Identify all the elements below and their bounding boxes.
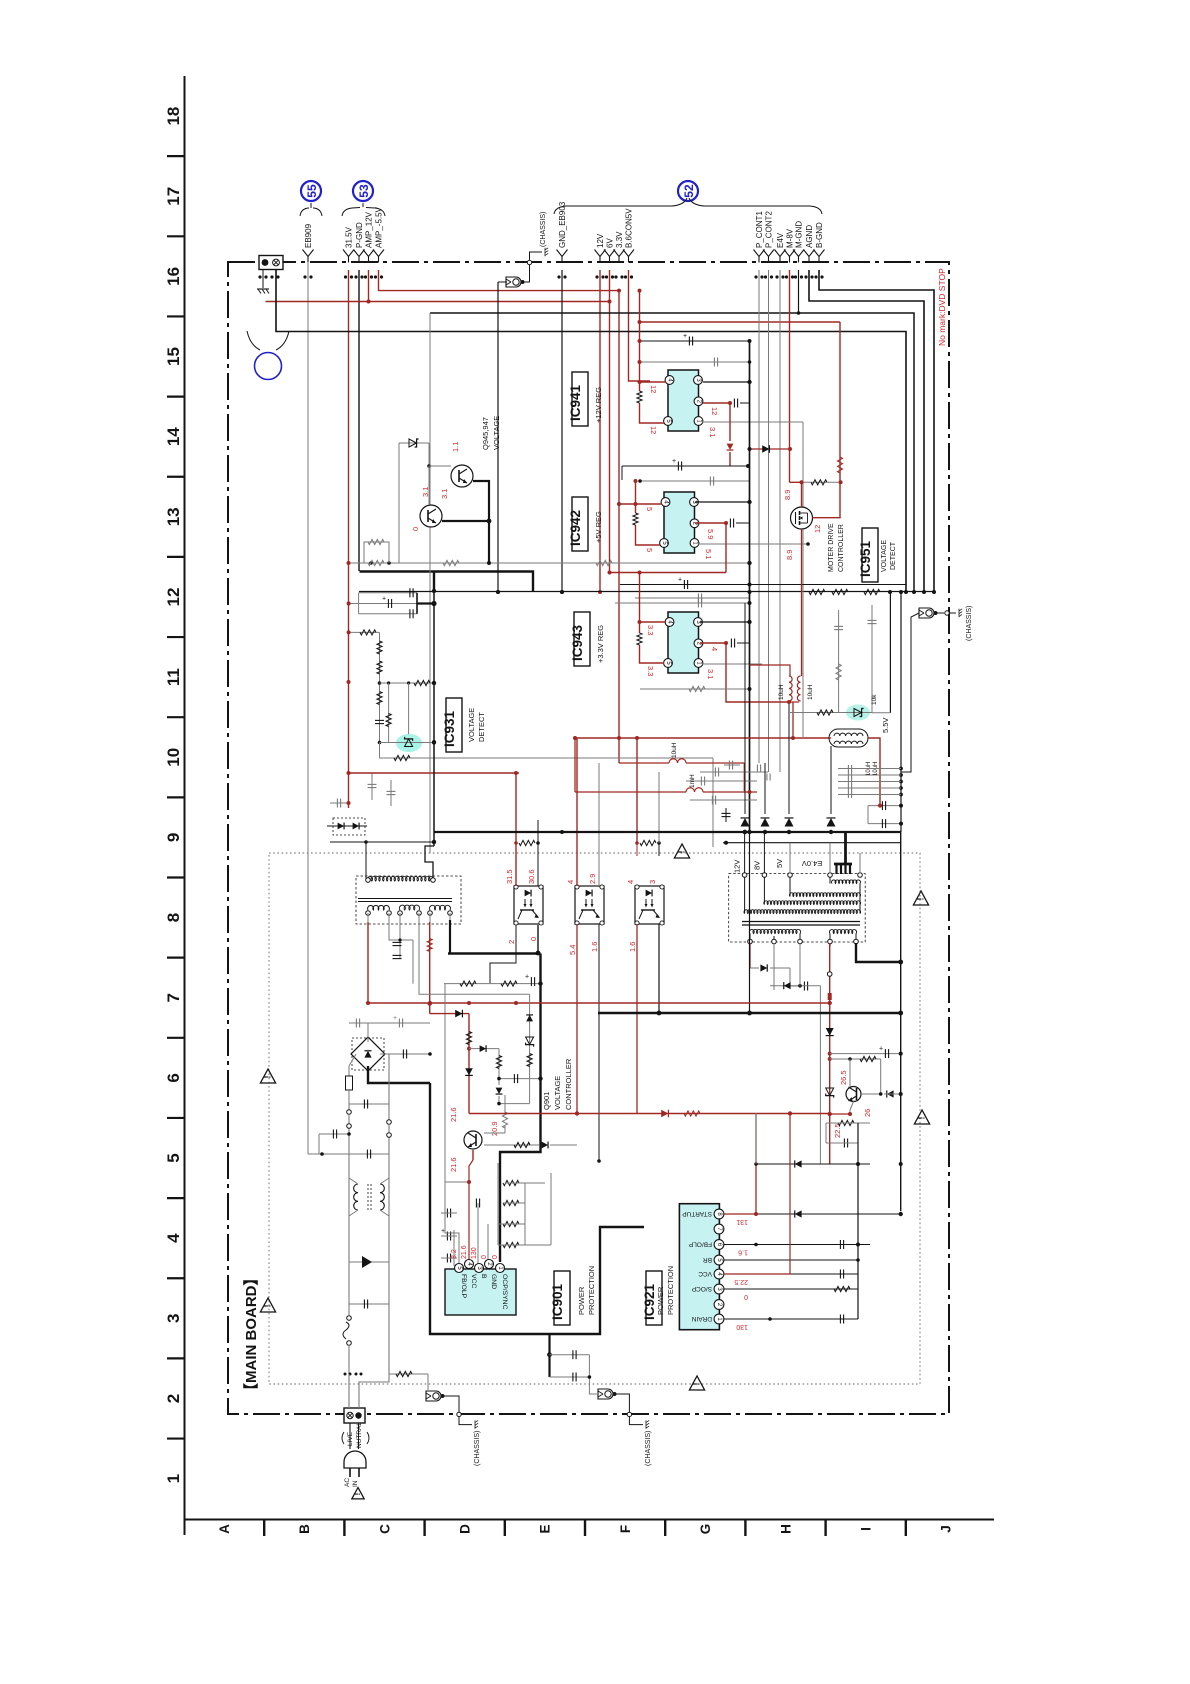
regulator IC942 xyxy=(664,492,695,553)
IC942 pin2 red wire xyxy=(695,523,726,573)
T902 core xyxy=(742,921,860,923)
cap bracket y806 xyxy=(868,805,901,807)
svg-text:52: 52 xyxy=(682,184,696,198)
wire AGND loop xyxy=(809,270,924,592)
bus elbow to transformer xyxy=(425,846,434,879)
wire P_CONT1 xyxy=(758,270,760,763)
red y518 link xyxy=(813,517,841,519)
circled 52 xyxy=(678,181,698,201)
thick bus y954 xyxy=(448,952,541,954)
optocoupler PH903 xyxy=(635,886,664,924)
T902 winding row2 xyxy=(789,893,860,897)
svg-text:+5V REG: +5V REG xyxy=(594,511,603,543)
svg-text:10: 10 xyxy=(164,748,183,767)
optocoupler PH902 xyxy=(575,886,604,924)
filter row y718 xyxy=(790,712,872,714)
svg-text:5.1: 5.1 xyxy=(704,549,713,559)
red bus y738 xyxy=(575,737,831,739)
ruler left numbers 18-1 xyxy=(164,107,183,1484)
red riser stub xyxy=(639,322,641,341)
svg-text:130: 130 xyxy=(471,1247,478,1259)
red bus y1003 xyxy=(368,1002,830,1004)
PH901 bottom wires xyxy=(490,925,516,983)
T902 winding verticals xyxy=(744,877,746,914)
divider vertical x409 xyxy=(408,683,410,735)
red bus y301 xyxy=(266,301,610,303)
svg-text:VOLTAGE: VOLTAGE xyxy=(881,540,888,572)
T902 bottom stubs xyxy=(749,943,751,946)
svg-text:21.6: 21.6 xyxy=(449,1157,458,1172)
divider net y683 xyxy=(380,682,435,684)
svg-text:4: 4 xyxy=(566,880,575,884)
cap bank C931 xyxy=(359,592,417,594)
regulator IC943 xyxy=(668,612,699,673)
cap across y1304 xyxy=(349,1303,389,1305)
connector B-GND entry xyxy=(814,250,825,257)
cap row above IC942 xyxy=(622,465,748,467)
svg-text:!: ! xyxy=(676,850,686,853)
PH903 bottom wires xyxy=(636,924,638,1113)
PH902 feeds xyxy=(576,738,578,886)
gray bus y563 xyxy=(349,562,750,564)
svg-text:12: 12 xyxy=(710,407,719,415)
svg-text:13: 13 xyxy=(164,507,183,526)
Q947 base wire xyxy=(429,465,451,467)
IC943 input resistor xyxy=(637,633,642,645)
cap row above bridge xyxy=(349,1022,430,1024)
svg-text:10k: 10k xyxy=(871,694,878,705)
svg-text:3.2: 3.2 xyxy=(451,1249,458,1259)
IC942 red input bracket xyxy=(635,481,637,513)
svg-text:22.5: 22.5 xyxy=(833,1123,842,1138)
svg-text:12: 12 xyxy=(649,385,658,393)
IC943 label box xyxy=(574,612,590,666)
svg-text:8.9: 8.9 xyxy=(783,490,792,500)
ruler left tick marks xyxy=(167,156,184,1438)
gray cell x848 xyxy=(838,610,840,713)
main bus x434 xyxy=(433,572,435,846)
gray drop x820 xyxy=(819,986,821,1164)
svg-text:BR: BR xyxy=(703,1256,712,1263)
svg-text:VOLTAGE: VOLTAGE xyxy=(492,416,501,450)
bridge cap right xyxy=(380,1053,430,1055)
chassis connector bottom left xyxy=(426,1391,441,1401)
wire to T901 pin1 xyxy=(365,842,367,879)
svg-text:4: 4 xyxy=(164,1233,183,1243)
right bus x858 xyxy=(857,1123,859,1319)
svg-text:55: 55 xyxy=(305,184,319,198)
wire B-GND loop xyxy=(819,270,934,592)
connector P-GND entry xyxy=(354,250,365,257)
divider y758 xyxy=(380,757,714,759)
wire EB909 vertical xyxy=(307,263,309,1154)
PH901 feeds xyxy=(515,773,517,886)
wire E4V xyxy=(779,270,781,772)
svg-text:1.1: 1.1 xyxy=(451,442,460,452)
divider vertical x389 xyxy=(388,683,390,743)
IC921 drain wire xyxy=(724,1318,858,1320)
svg-text:M-GND: M-GND xyxy=(795,221,804,248)
svg-text:GND_EB903: GND_EB903 xyxy=(558,201,567,248)
caps at IC901 pins xyxy=(446,1209,448,1218)
connector P_CONT2 entry xyxy=(763,250,774,257)
net y842 xyxy=(330,841,434,843)
svg-text:20.9: 20.9 xyxy=(490,1121,499,1136)
svg-text:!: ! xyxy=(916,1116,926,1119)
connector E4V entry xyxy=(775,250,786,257)
svg-text:!: ! xyxy=(262,1075,272,1078)
resistor y563 xyxy=(368,560,384,565)
rail left x349 xyxy=(348,1104,350,1315)
junction dots y1374 xyxy=(344,1373,347,1376)
svg-text:17: 17 xyxy=(164,187,183,206)
connector M-8V entry xyxy=(784,250,795,257)
svg-text:AGND: AGND xyxy=(805,225,814,248)
svg-text:6V: 6V xyxy=(606,238,615,248)
svg-text:12: 12 xyxy=(164,588,183,607)
IC921 startup diode xyxy=(756,1213,901,1215)
ruler bottom letters A-J xyxy=(217,1524,954,1535)
diode net y986 xyxy=(770,985,820,987)
gray cell x872 xyxy=(871,605,873,713)
svg-text:26: 26 xyxy=(863,1109,872,1117)
IC921 body xyxy=(679,1204,719,1330)
svg-text:3: 3 xyxy=(648,880,657,884)
racetrack inductor L951 xyxy=(829,729,868,747)
red bus y1113 xyxy=(469,1113,830,1115)
svg-text:5.4: 5.4 xyxy=(568,945,577,955)
connector pins primary xyxy=(347,1110,352,1115)
connector B.6CON5V entry xyxy=(623,250,634,257)
svg-text:3.1: 3.1 xyxy=(440,489,449,499)
wire P-GND lower run xyxy=(360,572,534,593)
MOSFET Q951 xyxy=(791,507,813,529)
svg-text:(CHASSIS): (CHASSIS) xyxy=(474,1431,481,1466)
connector AMP_-5.5V entry xyxy=(373,250,384,257)
IC942 label box xyxy=(572,497,588,551)
drop x750 low xyxy=(749,832,751,1013)
svg-text:D: D xyxy=(458,1524,473,1534)
transformer T901 dashed box xyxy=(356,876,461,924)
terminal box TB902 xyxy=(344,1408,365,1423)
ruler bottom horizontal line xyxy=(184,1519,994,1521)
svg-text:10uH: 10uH xyxy=(778,684,785,700)
svg-text:+: + xyxy=(672,458,676,465)
diode pair D911 xyxy=(333,818,365,835)
svg-text:22.5: 22.5 xyxy=(734,1278,748,1285)
transistor Q945 xyxy=(420,505,442,527)
svg-text:131: 131 xyxy=(736,1218,748,1225)
IC942 pin3 wire xyxy=(695,501,750,503)
warning triangle AC xyxy=(352,1488,364,1499)
red junction y773 xyxy=(349,772,520,774)
svg-text:G: G xyxy=(698,1524,713,1535)
svg-text:(CHASSIS): (CHASSIS) xyxy=(540,212,547,247)
svg-text:B: B xyxy=(297,1524,312,1534)
mid col x499 xyxy=(469,1048,499,1050)
cap row y603 xyxy=(615,602,750,604)
svg-text:+: + xyxy=(683,333,687,340)
svg-text:3.3: 3.3 xyxy=(646,666,655,676)
T902 winding row3 xyxy=(764,901,861,905)
cap C x340 xyxy=(330,802,349,804)
svg-text:F: F xyxy=(618,1525,633,1533)
Q951 gate feed xyxy=(790,482,802,507)
IC921 socp wire xyxy=(724,1288,858,1290)
svg-text:B-GND: B-GND xyxy=(815,222,824,248)
svg-text:21.6: 21.6 xyxy=(449,1107,458,1122)
svg-text:H: H xyxy=(778,1524,793,1534)
svg-text:12: 12 xyxy=(813,525,822,533)
svg-text:MOTER DRIVE: MOTER DRIVE xyxy=(828,523,835,572)
coupled inductor L943 xyxy=(789,676,792,701)
gray bus y313 xyxy=(430,313,914,592)
caps near x372 xyxy=(368,783,377,785)
svg-text:!: ! xyxy=(262,1304,272,1307)
svg-text:I: I xyxy=(859,1527,874,1531)
terminal box TB901 xyxy=(259,256,283,270)
svg-text:VCC: VCC xyxy=(698,1270,712,1277)
T902 bottom winding right xyxy=(829,930,856,934)
svg-text:+: + xyxy=(441,1228,445,1235)
thick bus y1013 xyxy=(598,1012,901,1014)
svg-text:15: 15 xyxy=(164,347,183,366)
bridge thick output xyxy=(368,1066,430,1083)
connector 6V entry xyxy=(604,250,615,257)
IC941 input resistor xyxy=(637,391,642,403)
svg-text:2: 2 xyxy=(507,940,516,944)
svg-text:5: 5 xyxy=(164,1153,183,1162)
resistor ladder x378 xyxy=(349,631,380,633)
diode row xyxy=(741,818,750,827)
Q901 red emitter xyxy=(472,1150,474,1160)
svg-text:21.6: 21.6 xyxy=(461,1245,468,1259)
cap rows mid right xyxy=(700,771,768,773)
thick comb E4 xyxy=(844,832,847,864)
IC942 input resistor xyxy=(633,513,638,525)
svg-text:0: 0 xyxy=(492,1255,499,1259)
wire AMP_12V vertical xyxy=(368,270,370,302)
svg-text:+: + xyxy=(393,1015,397,1022)
T902 winding row1 xyxy=(832,880,861,884)
connector 12V entry xyxy=(595,250,606,257)
svg-text:+3.3V REG: +3.3V REG xyxy=(596,625,605,663)
connector 3.3V entry xyxy=(614,250,625,257)
thick drop x540 xyxy=(500,954,541,1263)
T902 top pins xyxy=(742,873,747,878)
svg-text:30.6: 30.6 xyxy=(527,869,536,884)
svg-text:12V: 12V xyxy=(733,860,742,873)
Q971 wires xyxy=(849,1059,851,1087)
svg-text:5: 5 xyxy=(645,507,654,511)
Q951 red source xyxy=(801,529,803,676)
svg-text:8: 8 xyxy=(164,913,183,922)
svg-text:POWER: POWER xyxy=(577,1286,586,1315)
warning triangle left2 xyxy=(260,1298,275,1312)
diode red y449 xyxy=(750,448,791,450)
IC901 pins xyxy=(455,1264,464,1273)
wire 12V vertical xyxy=(599,270,601,592)
cap across y1104 xyxy=(349,1103,389,1105)
svg-text:3.3V: 3.3V xyxy=(615,231,624,248)
svg-text:!: ! xyxy=(354,1493,362,1495)
red chain x830 xyxy=(829,943,831,1114)
wire GND_EB903 vertical xyxy=(561,270,563,592)
resistor to chassis xyxy=(389,1373,428,1375)
connector 31.5V entry xyxy=(343,250,354,257)
red drop T901 right xyxy=(429,922,431,1014)
thick T902 ground xyxy=(856,943,901,962)
cap row2 above IC942 xyxy=(640,480,750,482)
wire B.6CON5V vertical xyxy=(629,270,651,381)
circled 55 xyxy=(301,181,321,201)
svg-text:4: 4 xyxy=(626,880,635,884)
svg-text:IC901: IC901 xyxy=(550,1283,565,1320)
T902 bottom winding left xyxy=(749,929,800,933)
svg-text:1.6: 1.6 xyxy=(590,942,599,952)
svg-text:3.1: 3.1 xyxy=(706,669,715,679)
IC941 label box xyxy=(572,372,588,426)
svg-text:DRAIN: DRAIN xyxy=(691,1315,712,1322)
svg-text:0: 0 xyxy=(411,527,420,531)
gray drop x803 xyxy=(802,422,804,737)
diode row y1164 xyxy=(756,1163,870,1165)
svg-text:4: 4 xyxy=(710,647,719,651)
connector AGND entry xyxy=(804,250,815,257)
gray frame x445 xyxy=(444,984,446,1183)
svg-text:10uH: 10uH xyxy=(807,684,814,700)
connector GND_EB903 entry xyxy=(557,250,568,257)
gray feeds IC901 xyxy=(412,940,414,984)
connector M-GND entry xyxy=(793,250,804,257)
svg-text:FB/OLP: FB/OLP xyxy=(689,1241,712,1248)
svg-text:130: 130 xyxy=(736,1323,748,1330)
diode chain x469 xyxy=(430,1013,469,1015)
circled 53 xyxy=(353,181,373,201)
transistor Q901 xyxy=(464,1131,482,1149)
red bus y322 xyxy=(640,321,841,323)
AC plug xyxy=(349,1423,351,1449)
svg-text:12V: 12V xyxy=(596,233,605,248)
svg-text:GND: GND xyxy=(490,1274,497,1289)
IC901 body xyxy=(445,1269,516,1315)
svg-text:A: A xyxy=(217,1524,232,1534)
gray riser x430 xyxy=(429,313,431,853)
hline y842 xyxy=(723,842,901,844)
svg-text:0: 0 xyxy=(744,1293,748,1300)
svg-text:1.6: 1.6 xyxy=(628,942,637,952)
resistor on x840 xyxy=(837,457,842,473)
bridge top wire xyxy=(367,1023,369,1042)
svg-text:2.9: 2.9 xyxy=(588,874,597,884)
cap below T902 xyxy=(803,982,805,991)
PH903 feeds xyxy=(636,738,638,843)
svg-text:3: 3 xyxy=(164,1314,183,1323)
IC931 label box xyxy=(446,698,462,752)
svg-text:P-GND: P-GND xyxy=(355,222,364,248)
IC943 pin2 red wire xyxy=(700,643,787,702)
svg-text:No mark:DVD STOP: No mark:DVD STOP xyxy=(937,268,947,346)
cap rows right xyxy=(838,768,901,770)
svg-text:9: 9 xyxy=(164,833,183,842)
svg-text:6: 6 xyxy=(164,1073,183,1082)
red drop T901 left xyxy=(367,922,369,1003)
right col x530 xyxy=(529,994,531,1103)
wire 31.5V vertical xyxy=(348,270,350,808)
svg-text:P_CONT1: P_CONT1 xyxy=(755,211,764,248)
fuse F901 xyxy=(348,1066,350,1076)
IC921 label box xyxy=(646,1271,662,1325)
svg-text:EB909: EB909 xyxy=(304,223,313,248)
warning triangle dotted top xyxy=(674,844,689,858)
warning triangle dotted bottom xyxy=(689,1376,704,1390)
chassis bottom mid xyxy=(598,1389,613,1399)
zener D945 xyxy=(399,442,429,444)
T901 secondary coils xyxy=(368,906,390,910)
gray net Q945 xyxy=(398,443,400,563)
svg-text:B.6CON5V: B.6CON5V xyxy=(625,208,634,248)
svg-text:26.5: 26.5 xyxy=(839,1070,848,1085)
svg-text:+: + xyxy=(382,596,386,603)
black drop x901 xyxy=(900,592,902,832)
svg-text:1.6: 1.6 xyxy=(738,1249,748,1256)
wire P-GND vertical xyxy=(358,270,360,571)
svg-text:IC921: IC921 xyxy=(642,1283,657,1320)
resistor grid xyxy=(497,1163,499,1245)
svg-text:Q945,947: Q945,947 xyxy=(481,417,490,450)
thick loop IC901 xyxy=(430,1083,644,1334)
zener D931 xyxy=(380,742,435,744)
Q947 collector xyxy=(473,481,489,563)
T901 core xyxy=(358,898,452,900)
warning triangle right xyxy=(913,891,928,905)
warning triangle left1 xyxy=(260,1069,275,1083)
bottom bus y832 xyxy=(434,831,901,833)
wire P_CONT2 xyxy=(768,270,770,772)
svg-text:31.5V: 31.5V xyxy=(345,226,354,248)
PH902 bottom wires xyxy=(576,924,578,1114)
transistor Q947 xyxy=(451,465,473,487)
isolation dotted border xyxy=(269,853,920,1384)
chassis ground at TB901 xyxy=(262,270,264,288)
IC941 red input bracket xyxy=(639,291,641,391)
svg-text:3.1: 3.1 xyxy=(708,427,717,437)
red into racetrack xyxy=(829,737,831,739)
bridge rectifier D901 xyxy=(352,1038,384,1070)
IC943 pin3 wire xyxy=(700,621,750,623)
gray drops T901 xyxy=(399,922,401,958)
svg-text:+: + xyxy=(678,577,682,584)
svg-text:+12V REG: +12V REG xyxy=(594,387,603,423)
PH901 top resistor xyxy=(515,843,517,856)
svg-text:(CHASSIS): (CHASSIS) xyxy=(966,606,973,641)
IC921 br wire xyxy=(724,1259,858,1261)
P_CONT cap ends xyxy=(756,765,758,772)
net y1059 xyxy=(830,1058,881,1060)
svg-text:8.9: 8.9 xyxy=(785,550,794,560)
Q945 collector xyxy=(442,520,489,522)
svg-text:J: J xyxy=(939,1525,954,1533)
svg-text:OCP/SYNC: OCP/SYNC xyxy=(501,1274,508,1310)
chassis right wire xyxy=(901,613,919,772)
resistor loop y542 xyxy=(364,542,389,563)
red out of racetrack xyxy=(868,738,880,806)
blue connector circle xyxy=(255,353,282,380)
choke L902 xyxy=(354,1184,358,1210)
IC901 label box xyxy=(554,1271,570,1325)
svg-text:POWER: POWER xyxy=(656,1286,665,1315)
chassis connector bottom mid xyxy=(598,1161,600,1190)
